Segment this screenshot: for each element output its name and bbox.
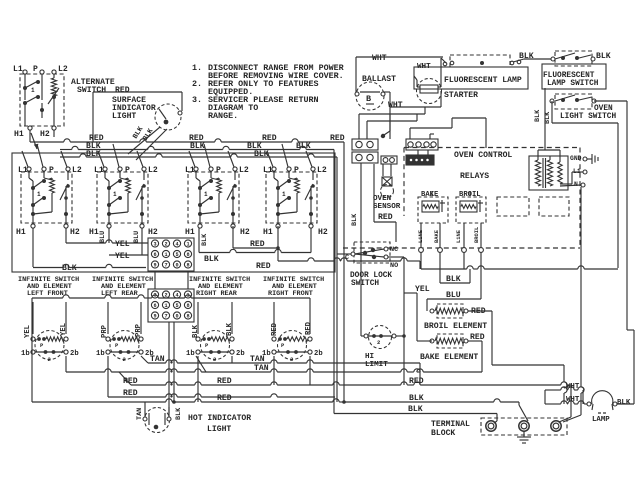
surface switch SW1 (left front)	[18, 144, 82, 228]
svg-text:RANGE.: RANGE.	[208, 111, 238, 121]
fluorescent lamp switch	[519, 51, 611, 89]
hi limit thermostat	[364, 326, 396, 370]
YEL wire	[404, 285, 430, 385]
oven light switch wires	[534, 88, 627, 330]
svg-text:LEFT FRONT: LEFT FRONT	[27, 290, 68, 298]
svg-text:WHT: WHT	[566, 383, 580, 391]
svg-text:RED: RED	[217, 394, 232, 403]
svg-text:N: N	[574, 181, 578, 188]
svg-text:FLUORESCENT: FLUORESCENT	[543, 72, 595, 80]
svg-text:BAKE ELEMENT: BAKE ELEMENT	[420, 353, 478, 362]
broil element wires	[468, 311, 564, 365]
connector grid P2	[148, 289, 194, 322]
connector J4	[381, 156, 397, 164]
svg-text:RED: RED	[409, 377, 424, 386]
svg-text:P: P	[49, 166, 54, 175]
svg-text:TAN: TAN	[250, 355, 265, 364]
hi limit wires	[361, 163, 406, 338]
alternate switch	[13, 65, 68, 142]
main bus N	[421, 252, 618, 269]
N terminal	[560, 181, 585, 188]
door lock wires	[351, 164, 396, 242]
svg-text:2b: 2b	[70, 350, 79, 358]
svg-text:RED: RED	[256, 262, 271, 271]
surface switch SW2 (left rear)	[94, 144, 158, 228]
alternate switch label	[71, 78, 115, 95]
svg-text:LIGHT: LIGHT	[207, 425, 231, 434]
alternate switch coil	[51, 78, 56, 96]
oven lamp wires	[545, 330, 634, 407]
svg-text:H2: H2	[70, 228, 80, 237]
svg-text:SENSOR: SENSOR	[373, 203, 401, 211]
svg-text:5: 5	[175, 252, 178, 258]
svg-text:2: 2	[164, 242, 167, 248]
svg-text:H1: H1	[89, 228, 99, 237]
svg-text:RED: RED	[217, 377, 232, 386]
svg-text:2: 2	[48, 356, 51, 363]
svg-text:H1: H1	[16, 228, 26, 237]
svg-text:BLK: BLK	[204, 255, 219, 264]
svg-text:0: 0	[175, 263, 178, 269]
infinite switch captions	[18, 276, 324, 298]
infinite switch colour labels	[24, 321, 313, 338]
switch bank lower wires	[33, 226, 420, 273]
BLK bus 2	[60, 150, 337, 159]
svg-text:BLK: BLK	[201, 233, 209, 246]
GND terminal	[570, 155, 592, 162]
svg-text:1.: 1.	[192, 63, 202, 73]
svg-text:1: 1	[186, 242, 189, 248]
relay header J5	[406, 155, 434, 165]
svg-text:FLUORESCENT LAMP: FLUORESCENT LAMP	[444, 76, 522, 85]
svg-text:LAMP: LAMP	[592, 416, 610, 424]
svg-text:1: 1	[37, 191, 41, 198]
thermostat leads from connector	[169, 322, 176, 413]
svg-text:8: 8	[186, 303, 189, 309]
svg-text:2: 2	[213, 356, 216, 363]
svg-text:P: P	[125, 166, 130, 175]
broil relay K2	[456, 191, 486, 223]
oven lamp	[587, 391, 617, 424]
svg-text:LIGHT SWITCH: LIGHT SWITCH	[560, 113, 616, 121]
svg-text:YEL: YEL	[415, 285, 430, 294]
svg-text:BROIL ELEMENT: BROIL ELEMENT	[424, 322, 487, 331]
svg-text:BLK: BLK	[596, 52, 611, 61]
svg-text:BLK: BLK	[192, 324, 200, 338]
svg-text:L2: L2	[239, 166, 249, 175]
svg-text:7: 7	[164, 314, 167, 320]
surface indicator light box	[93, 86, 182, 142]
ground symbol at transformer	[592, 154, 598, 164]
surface switch SW3 (right rear)	[185, 144, 249, 228]
svg-text:1: 1	[164, 303, 167, 309]
svg-text:RIGHT REAR: RIGHT REAR	[196, 290, 238, 298]
svg-text:6: 6	[153, 303, 156, 309]
svg-text:L2: L2	[72, 166, 82, 175]
svg-text:OVEN: OVEN	[594, 105, 613, 113]
svg-text:RED: RED	[262, 134, 277, 143]
transformer T1	[529, 150, 568, 190]
oven control box	[343, 148, 580, 249]
svg-text:L1: L1	[94, 166, 104, 175]
svg-text:2.: 2.	[192, 79, 202, 89]
svg-text:RED: RED	[271, 322, 279, 336]
svg-text:LIMIT: LIMIT	[365, 361, 388, 369]
svg-text:TAN: TAN	[136, 408, 144, 420]
svg-text:P: P	[33, 65, 38, 74]
svg-text:L1: L1	[185, 166, 195, 175]
arrow to switch bank	[31, 133, 38, 149]
svg-text:BLK: BLK	[175, 407, 183, 420]
bake element	[420, 333, 485, 362]
grid riser wires	[155, 271, 188, 289]
infinite switch feed wires	[32, 295, 310, 402]
svg-text:1: 1	[31, 87, 35, 94]
starter S1	[417, 79, 479, 104]
svg-text:YEL: YEL	[115, 252, 130, 261]
svg-text:BROIL: BROIL	[474, 227, 480, 243]
notes text	[192, 63, 345, 121]
surface switch bank outer box	[12, 153, 335, 272]
svg-text:6: 6	[153, 252, 156, 258]
door lock switch	[337, 242, 404, 293]
svg-text:RED: RED	[123, 389, 138, 398]
bake relay K1	[418, 191, 448, 223]
infinite switch IS2 (left rear)	[96, 331, 154, 364]
svg-text:9: 9	[153, 263, 156, 269]
svg-text:H2: H2	[148, 228, 158, 237]
svg-text:BLK: BLK	[617, 399, 631, 407]
TAN run 1	[141, 355, 420, 385]
svg-text:RED: RED	[115, 86, 130, 95]
svg-text:TAN: TAN	[150, 355, 165, 364]
svg-text:2: 2	[377, 339, 380, 346]
lamp interconnect wires	[390, 58, 441, 107]
spare relay outline 2	[539, 197, 569, 216]
svg-text:YEL: YEL	[60, 323, 68, 336]
svg-text:BLK: BLK	[409, 394, 424, 403]
TAN run 2	[66, 356, 482, 373]
connector grid P1	[148, 238, 194, 271]
svg-text:YEL: YEL	[24, 325, 32, 338]
fluorescent lamp FL1	[414, 55, 528, 89]
svg-text:BLK: BLK	[62, 264, 77, 273]
terminal block leads	[494, 421, 497, 423]
svg-text:2: 2	[290, 356, 293, 363]
BLU wire labels	[99, 231, 209, 246]
svg-text:H1: H1	[263, 228, 273, 237]
hot indicator light	[136, 402, 251, 434]
svg-text:C: C	[345, 254, 349, 262]
spare relay outline 1	[497, 197, 529, 216]
svg-text:H1: H1	[185, 228, 195, 237]
svg-text:L2: L2	[58, 65, 68, 74]
svg-text:BLU: BLU	[133, 231, 141, 243]
terminal block	[431, 418, 567, 438]
RED bus	[30, 134, 345, 143]
svg-text:1: 1	[204, 191, 208, 198]
svg-text:B: B	[366, 94, 371, 104]
svg-text:L1NE: L1NE	[456, 229, 462, 243]
svg-text:HOT INDICATOR: HOT INDICATOR	[188, 414, 251, 423]
svg-text:SWITCH: SWITCH	[77, 86, 106, 95]
ballast B1	[355, 75, 396, 110]
svg-text:DOOR LOCK: DOOR LOCK	[350, 272, 392, 280]
svg-text:RED: RED	[330, 134, 345, 143]
svg-text:BAKE: BAKE	[421, 191, 439, 199]
oven light switch	[550, 94, 616, 121]
svg-text:BLK: BLK	[544, 111, 552, 124]
svg-text:BAKE: BAKE	[434, 229, 440, 243]
svg-text:7: 7	[164, 263, 167, 269]
svg-text:BLK: BLK	[226, 322, 234, 336]
svg-text:2b: 2b	[236, 350, 245, 358]
svg-text:BLK: BLK	[408, 405, 423, 414]
svg-text:RED: RED	[378, 213, 393, 222]
svg-text:8: 8	[186, 252, 189, 258]
svg-text:TERMINAL: TERMINAL	[431, 420, 470, 429]
svg-text:LEFT REAR: LEFT REAR	[101, 290, 139, 298]
svg-text:5: 5	[175, 303, 178, 309]
oven sensor RT1	[373, 164, 401, 211]
svg-text:RED: RED	[305, 321, 313, 335]
svg-text:L2: L2	[317, 166, 327, 175]
svg-text:BLK: BLK	[190, 142, 205, 151]
svg-text:H2: H2	[318, 228, 328, 237]
svg-text:9: 9	[153, 314, 156, 320]
relay pin labels	[418, 227, 480, 243]
indicator light leads	[128, 125, 167, 160]
RED bus right	[344, 142, 571, 422]
svg-text:RELAYS: RELAYS	[460, 172, 489, 181]
svg-text:BLOCK: BLOCK	[431, 429, 455, 438]
svg-text:2: 2	[123, 356, 126, 363]
svg-text:H2: H2	[240, 228, 250, 237]
svg-text:4: 4	[175, 242, 178, 248]
svg-text:1: 1	[113, 191, 117, 198]
svg-text:1b: 1b	[21, 350, 30, 358]
RED run 2	[108, 356, 335, 398]
broil element	[424, 304, 487, 331]
svg-text:1b: 1b	[186, 350, 195, 358]
svg-text:YEL: YEL	[115, 240, 130, 249]
surface switch SW4 (right front)	[263, 144, 327, 228]
svg-text:RED: RED	[123, 377, 138, 386]
svg-text:H1: H1	[14, 130, 24, 139]
svg-text:3: 3	[153, 293, 156, 299]
svg-text:GND: GND	[570, 155, 582, 162]
infinite switch IS1 (left front)	[21, 331, 79, 364]
svg-text:H2: H2	[40, 130, 50, 139]
svg-text:BLK: BLK	[519, 52, 534, 61]
svg-text:L2: L2	[148, 166, 158, 175]
BLK channel	[440, 252, 470, 284]
svg-text:LIGHT: LIGHT	[112, 112, 136, 121]
bottom RED bus	[32, 356, 344, 403]
svg-text:STARTER: STARTER	[444, 91, 478, 100]
svg-text:3.: 3.	[192, 95, 202, 105]
feed columns	[563, 187, 584, 422]
L1 terminal	[560, 168, 587, 184]
svg-text:BLK: BLK	[254, 150, 269, 159]
svg-text:OVEN CONTROL: OVEN CONTROL	[454, 151, 512, 160]
svg-text:LAMP SWITCH: LAMP SWITCH	[547, 80, 599, 88]
BLU wire	[427, 252, 481, 311]
connector J1	[352, 139, 378, 150]
svg-text:P: P	[216, 166, 221, 175]
svg-text:BLK: BLK	[534, 109, 542, 122]
ballast WHT lead	[381, 92, 403, 138]
RED run 1	[119, 356, 344, 386]
svg-text:1: 1	[164, 252, 167, 258]
svg-text:HI: HI	[365, 353, 374, 361]
BLK bus lower	[334, 150, 497, 422]
harness wires to connectors	[359, 107, 486, 155]
BLK bus right	[342, 385, 528, 421]
connector J3	[406, 139, 438, 150]
svg-text:RED: RED	[250, 240, 265, 249]
relay pins	[419, 223, 484, 252]
BLK bus 1	[60, 142, 334, 151]
H terminal labels	[16, 228, 328, 237]
svg-text:L1: L1	[18, 166, 28, 175]
svg-text:1: 1	[282, 191, 286, 198]
connector J2	[352, 152, 378, 163]
svg-text:OVEN: OVEN	[373, 195, 392, 203]
svg-text:L1: L1	[13, 65, 23, 74]
svg-text:P: P	[294, 166, 299, 175]
svg-text:NC: NC	[390, 246, 398, 254]
svg-text:WHT: WHT	[566, 396, 580, 404]
svg-text:2b: 2b	[314, 350, 323, 358]
svg-text:PRP: PRP	[135, 323, 143, 337]
svg-text:0: 0	[175, 314, 178, 320]
bake element wires	[417, 341, 482, 372]
svg-text:L1: L1	[263, 166, 273, 175]
svg-text:8: 8	[186, 263, 189, 269]
svg-text:1: 1	[186, 293, 189, 299]
svg-text:1b: 1b	[96, 350, 105, 358]
svg-text:BLK: BLK	[351, 213, 359, 226]
svg-text:8: 8	[186, 314, 189, 320]
svg-text:3: 3	[153, 242, 156, 248]
infinite switch IS3 (right rear)	[186, 331, 245, 364]
svg-text:BLK: BLK	[296, 142, 311, 151]
svg-text:NO: NO	[390, 262, 398, 270]
terminal block ground	[517, 431, 531, 443]
surface indicator light	[155, 103, 182, 130]
svg-text:TAN: TAN	[254, 364, 269, 373]
svg-text:SWITCH: SWITCH	[351, 280, 379, 288]
infinite switch IS4 (right front)	[262, 331, 323, 364]
WHT wire top	[356, 54, 443, 92]
svg-text:RIGHT FRONT: RIGHT FRONT	[268, 290, 313, 298]
svg-text:WHT: WHT	[372, 54, 387, 63]
